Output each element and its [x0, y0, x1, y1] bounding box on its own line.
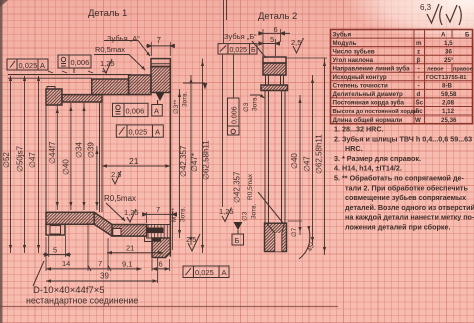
- svg-text:∅34: ∅34: [75, 142, 84, 158]
- svg-text:3отв.: 3отв.: [251, 203, 258, 219]
- svg-text:∅3: ∅3: [242, 211, 249, 221]
- svg-text:∅42,357: ∅42,357: [233, 171, 242, 203]
- svg-text:5: 5: [53, 246, 57, 255]
- svg-text:Модуль: Модуль: [333, 40, 357, 47]
- datum B link line: [223, 0, 227, 207]
- roughness 2,5 mid: [111, 170, 121, 184]
- svg-text:14: 14: [62, 259, 70, 268]
- svg-text:Исходный контур: Исходный контур: [333, 74, 387, 81]
- D1 rim band: [151, 67, 170, 93]
- svg-text:∅62,58h11: ∅62,58h11: [202, 140, 211, 180]
- svg-text:1. 28...32 HRC.: 1. 28...32 HRC.: [334, 125, 384, 134]
- frame 0,006 rotated D2: [228, 54, 240, 135]
- D1 right face: [169, 59, 171, 257]
- svg-text:59,58: 59,58: [441, 91, 457, 98]
- svg-text:нестандартное соединение: нестандартное соединение: [26, 296, 138, 306]
- svg-text:Высота до постоянной хорды: Высота до постоянной хорды: [333, 108, 419, 115]
- svg-text:Число зубьев: Число зубьев: [333, 48, 375, 55]
- D1 lower band right: [112, 225, 147, 237]
- svg-text:ложения деталей при сборке.: ложения деталей при сборке.: [345, 223, 450, 232]
- scan corner mark top-left: [0, 0, 8, 7]
- svg-text:h̄c: h̄c: [416, 108, 424, 115]
- svg-text:0,025: 0,025: [195, 268, 214, 277]
- svg-text:β: β: [417, 57, 421, 64]
- svg-text:0,025: 0,025: [19, 61, 38, 70]
- svg-text:45°: 45°: [306, 240, 318, 253]
- chain dim 14 7 9,1 6: [46, 222, 170, 271]
- svg-text:Угол наклона: Угол наклона: [333, 57, 374, 64]
- dim 21 bore: [102, 156, 170, 168]
- roughness 1,25 bottom: [124, 208, 139, 222]
- svg-text:7: 7: [157, 36, 162, 45]
- svg-text:А: А: [441, 31, 446, 38]
- svg-text:∅62,58h11: ∅62,58h11: [315, 134, 324, 174]
- svg-text:8-В: 8-В: [442, 83, 453, 90]
- svg-text:R0,5max: R0,5max: [104, 194, 136, 203]
- svg-text:Зубья „А“: Зубья „А“: [107, 34, 140, 43]
- svg-text:Б: Б: [235, 236, 240, 245]
- svg-text:∅50js7: ∅50js7: [16, 145, 25, 172]
- svg-text:Постоянная хорда зуба: Постоянная хорда зуба: [333, 100, 405, 107]
- svg-text:6: 6: [274, 25, 278, 34]
- D2 flange ring: [261, 85, 288, 91]
- leader dia3 3otv D2 upper: [250, 94, 265, 98]
- roughness 2,5 top D2: [291, 38, 304, 53]
- frame 0,006 top: [58, 55, 91, 73]
- svg-text:D-10×40×44f7×5: D-10×40×44f7×5: [33, 285, 105, 296]
- svg-text:1,25: 1,25: [100, 59, 115, 68]
- D1 lower step diagonal: [94, 212, 112, 236]
- long bottom line: [0, 306, 338, 308]
- D1 hub band upper: [62, 95, 102, 102]
- dim 39: [46, 258, 158, 283]
- svg-text:3отв.: 3отв.: [182, 91, 189, 107]
- svg-text:25,36: 25,36: [441, 117, 457, 124]
- svg-text:Степень точности: Степень точности: [333, 83, 388, 90]
- datum B triangle: [234, 222, 243, 234]
- label zubya A: [104, 34, 150, 56]
- svg-text:∅40: ∅40: [62, 159, 71, 175]
- svg-text:9,1: 9,1: [122, 260, 132, 269]
- svg-text:-: -: [418, 83, 420, 90]
- svg-text:∅3**: ∅3**: [173, 99, 180, 114]
- mid diameter dim lines: [56, 103, 99, 210]
- svg-text:3отв.: 3отв.: [180, 206, 187, 222]
- svg-text:3. * Размер для справок.: 3. * Размер для справок.: [334, 154, 421, 163]
- D2 bottom flange: [265, 223, 287, 251]
- svg-text:совмещение зубьев сопрягаемых: совмещение зубьев сопрягаемых: [345, 193, 466, 202]
- D1 bore walls: [100, 102, 103, 212]
- D1 bottom flange block: [130, 236, 170, 257]
- svg-text:деталей. Возле одного из отвер: деталей. Возле одного из отверстий: [345, 203, 474, 212]
- dim 7 tooth width: [146, 36, 175, 56]
- frame 0,025/B: [218, 44, 257, 54]
- svg-text:5. ** Обработать по сопрягаемо: 5. ** Обработать по сопрягаемой де-: [334, 174, 465, 183]
- D1 lower band left: [46, 212, 94, 224]
- frame 0,025/A top-left: [7, 59, 48, 70]
- svg-text:левое: левое: [427, 67, 443, 73]
- svg-text:5: 5: [270, 35, 274, 44]
- svg-text:d: d: [417, 91, 421, 98]
- svg-text:6,3: 6,3: [420, 3, 432, 12]
- label M3 3otv: [171, 206, 187, 222]
- frame 0,025/A bottom right: [183, 266, 229, 278]
- svg-text:ГОСТ13755-81: ГОСТ13755-81: [426, 75, 467, 81]
- top-right general roughness 6,3: [420, 3, 461, 25]
- dim 6 top: [258, 25, 290, 35]
- svg-text:2,08: 2,08: [442, 100, 455, 107]
- svg-text:∅7: ∅7: [291, 227, 298, 237]
- datum B box: [232, 234, 244, 245]
- svg-text:0,025: 0,025: [230, 47, 248, 54]
- svg-text:∅44f7: ∅44f7: [48, 141, 57, 164]
- D1 lower flange: [46, 224, 65, 235]
- svg-text:Направление линий зуба: Направление линий зуба: [333, 66, 411, 73]
- D1 tooth block: [151, 59, 170, 67]
- svg-text:A: A: [40, 61, 45, 70]
- svg-text:Длина общей нормали: Длина общей нормали: [333, 117, 403, 124]
- D1 step band: [129, 75, 151, 95]
- svg-text:2. Зубья и шлицы ТВЧ h 0,4...0: 2. Зубья и шлицы ТВЧ h 0,4...0,6 59...63: [334, 134, 472, 143]
- svg-text:R0,5max: R0,5max: [247, 173, 254, 200]
- dim 21 bottom: [107, 244, 163, 255]
- dim 7 bottom flange: [143, 205, 177, 250]
- svg-text:∅39: ∅39: [87, 142, 96, 158]
- svg-text:∅52: ∅52: [2, 152, 11, 168]
- zubya B leader: [252, 41, 266, 58]
- svg-text:A: A: [154, 107, 159, 116]
- svg-text:21: 21: [129, 156, 139, 166]
- svg-text:∅47: ∅47: [28, 152, 37, 168]
- roughness 2,5 bottom right: [186, 234, 200, 251]
- svg-text:R0,5max: R0,5max: [95, 45, 125, 54]
- top chain dimension line: [8, 71, 131, 81]
- svg-text:Зубья „Б“: Зубья „Б“: [224, 32, 257, 41]
- svg-text:0,025: 0,025: [129, 127, 148, 136]
- svg-text:A: A: [155, 127, 160, 136]
- svg-text:М3**: М3**: [171, 207, 178, 222]
- svg-text:1,5: 1,5: [444, 40, 453, 47]
- D1 bottom teeth block: [147, 225, 171, 239]
- D2 tube walls: [265, 91, 285, 224]
- D1 hub left face: [45, 105, 47, 212]
- chamfer leader arc: [258, 192, 310, 259]
- svg-text:Б: Б: [251, 47, 256, 54]
- svg-text:Б: Б: [465, 31, 470, 38]
- roughness 1,25 top: [100, 59, 115, 73]
- dim 5 bottom: [43, 236, 71, 257]
- svg-text:-: -: [418, 66, 420, 73]
- svg-text:S̄c: S̄c: [416, 100, 424, 107]
- svg-text:HRC.: HRC.: [345, 144, 363, 153]
- svg-text:0,006: 0,006: [71, 58, 90, 67]
- frame 0,025/A mid: [116, 125, 163, 137]
- svg-text:0,006: 0,006: [232, 106, 239, 124]
- svg-text:7: 7: [156, 205, 160, 214]
- svg-text:Деталь 1: Деталь 1: [88, 8, 127, 19]
- svg-text:Делительный диаметр: Делительный диаметр: [333, 91, 404, 98]
- svg-text:4. H14, h14, ±IT14/2.: 4. H14, h14, ±IT14/2.: [334, 164, 402, 173]
- svg-text:1,25: 1,25: [124, 208, 139, 217]
- svg-text:m: m: [416, 40, 422, 47]
- D1 web band: [92, 79, 129, 95]
- svg-text:2,5: 2,5: [186, 235, 196, 244]
- svg-text:W: W: [415, 117, 421, 124]
- svg-text:A: A: [222, 268, 227, 277]
- svg-text:21: 21: [126, 244, 134, 253]
- label R0,5max top: [94, 45, 145, 70]
- svg-text:36: 36: [445, 48, 452, 55]
- spline leader: [33, 261, 44, 286]
- svg-text:3отв.: 3отв.: [252, 95, 259, 111]
- svg-text:правое: правое: [453, 67, 473, 73]
- roughness 1,25 D2: [219, 207, 234, 222]
- svg-text:39: 39: [100, 272, 109, 281]
- svg-text:∅3: ∅3: [243, 102, 250, 112]
- svg-text:Деталь 2: Деталь 2: [258, 11, 297, 22]
- svg-text:6: 6: [159, 260, 163, 269]
- dim 5 top: [258, 29, 281, 56]
- svg-text:∅47: ∅47: [303, 156, 312, 172]
- svg-text:-: -: [418, 74, 420, 81]
- D1 left flange upper: [46, 87, 62, 106]
- datum A triangle with stem: [156, 93, 165, 105]
- svg-text:25°: 25°: [444, 57, 454, 64]
- svg-text:∅47*: ∅47*: [190, 153, 199, 172]
- scan left edge: [0, 0, 3, 323]
- leader dia3 3otv D1: [183, 83, 207, 88]
- left diameter dim lines: [9, 76, 40, 253]
- D2 neck: [266, 75, 284, 85]
- svg-text:Зубья: Зубья: [333, 31, 352, 38]
- svg-text:тали 2. При обработке обеспечи: тали 2. При обработке обеспечить: [345, 183, 468, 192]
- label R0,5max bottom: [104, 194, 136, 221]
- svg-text:∅40: ∅40: [290, 153, 299, 169]
- D2 tooth block: [263, 57, 286, 75]
- svg-text:∅42,357: ∅42,357: [179, 145, 188, 177]
- svg-text:7: 7: [98, 259, 102, 268]
- svg-text:на каждой детали нанести метку: на каждой детали нанести метку по-: [345, 213, 474, 222]
- right diameter dim lines D2: [286, 58, 328, 255]
- frame 0,006/A mid: [113, 103, 163, 116]
- svg-text:0,006: 0,006: [126, 107, 145, 116]
- right diameter dim lines D1: [178, 59, 204, 253]
- svg-text:1,12: 1,12: [442, 108, 455, 115]
- svg-text:z: z: [417, 48, 420, 55]
